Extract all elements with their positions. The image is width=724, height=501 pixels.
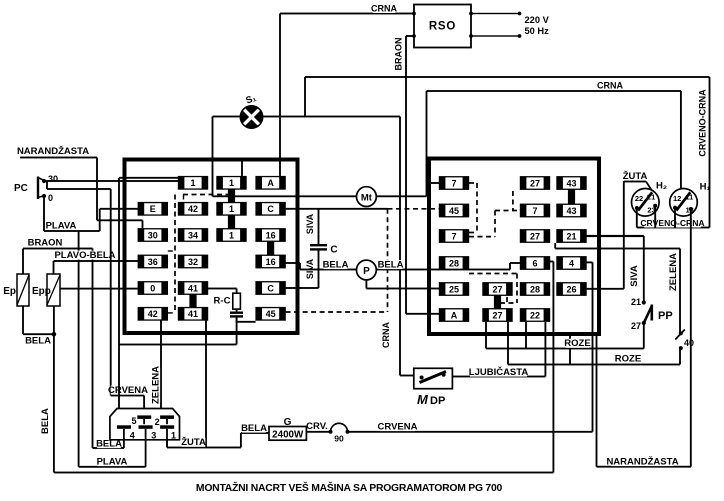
svg-text:21: 21	[631, 297, 641, 307]
svg-text:ROZE: ROZE	[615, 354, 641, 365]
svg-text:42: 42	[148, 309, 158, 319]
svg-text:SIVA: SIVA	[305, 213, 315, 234]
svg-text:2400W: 2400W	[272, 429, 304, 440]
svg-text:E: E	[150, 204, 156, 214]
svg-text:41: 41	[188, 309, 198, 319]
svg-text:50 Hz: 50 Hz	[525, 26, 550, 36]
svg-text:36: 36	[148, 257, 158, 267]
svg-text:28: 28	[449, 258, 459, 268]
svg-text:R-C: R-C	[214, 296, 231, 307]
svg-text:41: 41	[188, 283, 198, 293]
svg-text:27: 27	[631, 321, 641, 331]
svg-text:PC: PC	[14, 183, 28, 194]
svg-text:ŽUTA: ŽUTA	[181, 436, 206, 448]
svg-text:DP: DP	[430, 395, 445, 407]
svg-text:27: 27	[492, 284, 502, 294]
svg-text:SIVA: SIVA	[629, 265, 640, 287]
svg-text:4: 4	[130, 430, 135, 440]
svg-text:H₁: H₁	[700, 182, 711, 193]
svg-text:22: 22	[530, 310, 540, 320]
svg-text:22: 22	[635, 194, 643, 203]
svg-text:27: 27	[492, 310, 502, 320]
svg-text:H₂: H₂	[656, 181, 667, 192]
svg-text:3: 3	[151, 430, 156, 440]
svg-text:1: 1	[171, 430, 176, 440]
svg-text:BELA: BELA	[241, 423, 267, 434]
svg-text:CRVENO-CRNA: CRVENO-CRNA	[698, 89, 708, 157]
svg-text:C: C	[267, 283, 274, 293]
svg-text:BRAON: BRAON	[394, 38, 404, 71]
svg-text:30: 30	[148, 230, 158, 240]
svg-text:27: 27	[530, 231, 540, 241]
svg-text:220 V: 220 V	[525, 15, 550, 25]
svg-text:2: 2	[155, 417, 160, 427]
svg-text:28: 28	[530, 284, 540, 294]
svg-text:Epp: Epp	[32, 286, 51, 297]
svg-text:4: 4	[569, 258, 574, 268]
svg-text:1: 1	[229, 230, 234, 240]
svg-text:CRNA: CRNA	[381, 322, 391, 348]
svg-text:C: C	[267, 204, 274, 214]
svg-text:12: 12	[673, 194, 681, 203]
svg-text:CRVENA: CRVENA	[378, 422, 418, 433]
svg-text:C: C	[330, 245, 337, 256]
svg-text:CRVENO-CRNA: CRVENO-CRNA	[640, 218, 704, 228]
svg-text:CRNA: CRNA	[597, 81, 623, 91]
svg-text:BELA: BELA	[323, 260, 349, 271]
svg-text:A: A	[267, 178, 274, 188]
svg-text:P: P	[363, 266, 370, 277]
svg-text:NARANDŽASTA: NARANDŽASTA	[17, 145, 89, 157]
svg-text:0: 0	[150, 283, 155, 293]
svg-text:45: 45	[266, 309, 276, 319]
svg-text:42: 42	[188, 204, 198, 214]
svg-text:CRVENA: CRVENA	[108, 385, 148, 396]
svg-text:43: 43	[566, 178, 576, 188]
svg-text:LJUBIČASTA: LJUBIČASTA	[469, 366, 529, 378]
svg-text:ZELENA: ZELENA	[151, 366, 162, 404]
svg-text:ZELENA: ZELENA	[668, 253, 679, 291]
svg-text:6: 6	[532, 258, 537, 268]
svg-text:PP: PP	[658, 310, 673, 322]
svg-text:M: M	[417, 392, 429, 407]
svg-text:40: 40	[684, 338, 694, 348]
svg-text:NARANDŽASTA: NARANDŽASTA	[606, 456, 678, 468]
svg-text:RSO: RSO	[429, 21, 456, 33]
svg-text:CRNA: CRNA	[371, 4, 397, 14]
svg-text:Mt: Mt	[361, 192, 373, 203]
svg-text:7: 7	[451, 231, 456, 241]
svg-text:7: 7	[532, 206, 537, 216]
svg-text:5: 5	[131, 416, 136, 426]
svg-text:1: 1	[190, 178, 195, 188]
svg-text:25: 25	[449, 284, 459, 294]
svg-text:1: 1	[229, 204, 234, 214]
svg-text:MONTAŽNI NACRT VEŠ MAŠINA SA P: MONTAŽNI NACRT VEŠ MAŠINA SA PROGRAMATOR…	[196, 481, 503, 494]
svg-text:BELA: BELA	[40, 408, 51, 434]
svg-text:PLAVA: PLAVA	[46, 221, 77, 232]
svg-text:32: 32	[188, 257, 198, 267]
svg-text:16: 16	[266, 257, 276, 267]
svg-text:16: 16	[266, 230, 276, 240]
svg-text:26: 26	[566, 284, 576, 294]
svg-text:30: 30	[48, 174, 58, 184]
svg-text:A: A	[451, 310, 458, 320]
svg-text:34: 34	[188, 230, 198, 240]
svg-text:21: 21	[566, 231, 576, 241]
svg-text:45: 45	[449, 206, 459, 216]
svg-text:43: 43	[566, 206, 576, 216]
svg-text:ROZE: ROZE	[564, 338, 590, 349]
svg-text:90: 90	[334, 434, 344, 444]
svg-text:PLAVO-BELA: PLAVO-BELA	[54, 250, 115, 261]
svg-text:0: 0	[48, 193, 53, 203]
svg-text:1: 1	[229, 178, 234, 188]
svg-text:7: 7	[451, 178, 456, 188]
svg-text:PLAVA: PLAVA	[97, 457, 128, 468]
svg-text:27: 27	[530, 178, 540, 188]
svg-text:11: 11	[685, 193, 693, 202]
svg-text:21: 21	[647, 193, 655, 202]
svg-text:CRV.: CRV.	[306, 421, 328, 432]
svg-text:Ep: Ep	[3, 286, 16, 297]
svg-text:G: G	[284, 417, 292, 428]
svg-text:ŽUTA: ŽUTA	[623, 170, 648, 182]
svg-text:BELA: BELA	[378, 260, 404, 271]
svg-text:BELA: BELA	[25, 336, 51, 347]
svg-text:BRAON: BRAON	[28, 238, 63, 249]
